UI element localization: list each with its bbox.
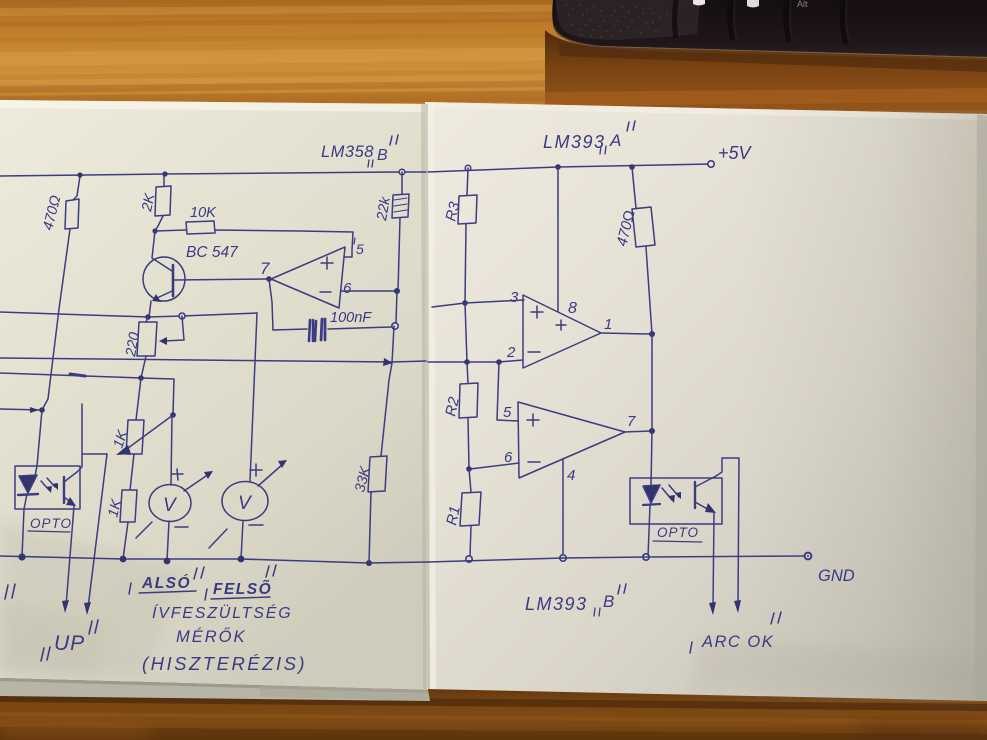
resistor 10K horizontal <box>155 230 186 231</box>
node pin6/22k <box>394 288 400 294</box>
potentiometer 1K wiper arrow <box>124 415 173 451</box>
wire output pin7 <box>625 431 650 432</box>
node bus/33k <box>366 560 372 566</box>
plus sign center <box>556 320 566 330</box>
node emitter/rail2 <box>145 314 151 320</box>
wire ground bus right page <box>428 556 806 562</box>
terminal +5V open circle <box>708 161 714 167</box>
svg-text:B: B <box>377 147 388 164</box>
svg-text:ARC OK: ARC OK <box>701 633 774 651</box>
node bus/1K <box>120 556 127 563</box>
wire 2K to collector node <box>155 216 163 231</box>
wire rail3 <box>0 358 426 362</box>
wire top supply rail left page <box>0 172 426 176</box>
wire R2 to pin6 node <box>468 418 469 469</box>
svg-text:100nF: 100nF <box>330 310 372 326</box>
node pin6 <box>466 466 472 472</box>
voltmeter V1 to bus <box>167 521 169 561</box>
opto LED wire to bus <box>22 494 27 557</box>
svg-text:1: 1 <box>604 316 612 333</box>
wire pin1 node to pin7 node <box>651 334 653 431</box>
transistor collector <box>152 231 172 271</box>
wire pin4 <box>562 459 564 556</box>
wire top supply rail right page <box>428 164 710 172</box>
wire pin3 node down to rail3 <box>465 303 467 362</box>
node rail/pin8 <box>555 164 561 170</box>
wire rail2 base bus <box>0 312 257 317</box>
opto2 phototransistor bar <box>694 482 696 508</box>
keyboard body <box>552 0 987 57</box>
node top rail / 22k <box>399 169 405 175</box>
svg-text:OPTO: OPTO <box>30 516 72 531</box>
right paper sheet <box>425 102 987 701</box>
bottom rim highlight <box>554 26 987 58</box>
node pin7/opto <box>649 428 655 434</box>
wire pin8 <box>557 167 559 311</box>
voltmeter V1 lead <box>171 415 172 485</box>
resistor 1K fixed <box>120 490 137 522</box>
voltmeter V2 to bus <box>241 521 243 559</box>
svg-text:3: 3 <box>510 289 519 306</box>
node bus/V1 <box>164 558 171 565</box>
svg-text:A: A <box>609 131 621 150</box>
svg-text:MÉRŐK: MÉRŐK <box>176 627 247 646</box>
svg-text:2: 2 <box>506 344 516 361</box>
node top rail / 470R <box>77 172 82 177</box>
opto phototransistor bar <box>63 477 65 503</box>
voltmeter V1 diagonal stroke <box>136 522 152 538</box>
voltmeter V1 plus <box>172 469 183 480</box>
transistor emitter with arrow <box>155 291 172 299</box>
node pin7 <box>266 276 272 282</box>
svg-text:Alt: Alt <box>797 0 808 9</box>
key separators <box>675 0 847 44</box>
opto2 emitter arrow <box>695 502 711 511</box>
svg-text:6: 6 <box>343 280 352 297</box>
opto LED triangle <box>19 475 37 493</box>
wire pin3 <box>432 300 524 307</box>
opto emitter arrow <box>64 497 73 504</box>
wire ground bus left page <box>0 556 428 563</box>
wire pin5 branch <box>497 362 518 421</box>
quote marks near UP <box>5 584 15 599</box>
opto2 LED triangle <box>643 485 660 503</box>
node top rail / 2K <box>162 171 167 176</box>
svg-text:OPTO: OPTO <box>657 525 699 540</box>
white key glyph (menu key) <box>693 0 705 6</box>
potentiometer 220 wiper arrow <box>163 316 184 341</box>
node pin3 <box>462 300 468 306</box>
terminal GND open circle <box>805 553 812 560</box>
wire 10K to op-amp +input pin5 <box>215 230 353 257</box>
wire emitter to ARC OK arrow <box>713 513 714 608</box>
bottom wood band <box>0 660 987 740</box>
svg-text:6: 6 <box>504 449 513 466</box>
wire 470R down to opto <box>37 229 70 466</box>
wire R3 to pin3 node <box>465 224 466 303</box>
node pin1/470 <box>649 331 655 337</box>
shadow of right sheet edge on left sheet <box>421 104 430 689</box>
svg-text:LM393: LM393 <box>543 132 606 152</box>
svg-text:(HISZTERÉZIS): (HISZTERÉZIS) <box>142 653 307 674</box>
voltmeter V2 diagonal stroke <box>209 529 227 548</box>
resistor 2K vertical <box>163 174 165 186</box>
wire output pin1 <box>601 333 650 334</box>
wire rail2 corner down to voltmeter2 <box>250 313 257 481</box>
opto2 light arrows <box>662 485 679 500</box>
svg-text:4: 4 <box>567 467 575 484</box>
voltmeter V1 adjust arrow <box>184 474 209 491</box>
node bus/opto <box>18 553 25 560</box>
voltmeter V2 plus <box>250 464 262 476</box>
opto LED cathode bar <box>18 494 38 495</box>
svg-text:10K: 10K <box>190 205 217 221</box>
op-amp U1 LM358B triangle <box>271 247 345 308</box>
wire pin6 node to cap node <box>396 291 397 323</box>
left paper subtle corner shading <box>0 520 190 678</box>
opto collector jog <box>82 453 107 455</box>
transistor Q1 BC547 circle <box>143 257 185 301</box>
svg-text:ÍVFESZÜLTSÉG: ÍVFESZÜLTSÉG <box>152 603 292 622</box>
opto2 collector wire <box>695 458 739 606</box>
svg-text:UP: UP <box>54 632 85 655</box>
svg-text:ALSÓ: ALSÓ <box>141 574 191 592</box>
node rail4/220 <box>138 375 144 381</box>
node rail3/R2 <box>464 359 470 365</box>
plus sign input pin5 <box>321 257 333 269</box>
node bus/V2 <box>238 556 245 563</box>
strip of shadowed paper below left sheet <box>0 678 430 701</box>
minus sign input pin6 <box>320 291 331 293</box>
minus sign pin6 <box>528 461 540 463</box>
potentiometer 1K body <box>136 378 141 420</box>
svg-text:FELSÕ: FELSÕ <box>213 580 272 598</box>
svg-text:GND: GND <box>818 567 855 585</box>
resistor R1 <box>469 469 471 492</box>
minus sign pin2 <box>528 351 540 353</box>
wire 220 bottom to rail4 <box>141 356 146 378</box>
optocoupler U5 box <box>630 478 722 524</box>
resistor 470ohm right <box>632 167 636 208</box>
svg-text:B: B <box>603 592 614 611</box>
op-amp U4 LM393B triangle <box>518 402 625 478</box>
opto light arrows <box>41 478 55 490</box>
wire to UP arrow 2 <box>88 454 107 608</box>
voltmeter V2 circle <box>222 482 268 521</box>
opto collector wire up <box>64 404 82 482</box>
wire base to op-amp pin7 <box>174 279 269 280</box>
svg-text:5: 5 <box>503 404 512 421</box>
node bus/pin4 open circle <box>560 555 566 561</box>
capacitor C1 100nF <box>273 329 307 330</box>
wire 22k to pin6 node <box>398 218 400 291</box>
node rail3/pin5 branch <box>496 359 502 365</box>
wire pin7 down to cap <box>269 279 273 330</box>
svg-text:8: 8 <box>568 300 577 317</box>
windows key glyph <box>747 0 759 8</box>
node rail/R3 <box>465 165 471 171</box>
resistor 33K vertical <box>381 326 394 456</box>
opto2 LED wire from pin7 <box>651 431 652 486</box>
opto2 LED wire to bus <box>648 505 650 557</box>
left paper sheet <box>0 100 428 690</box>
wire stub to 470 line <box>0 409 42 410</box>
opto2 LED cathode bar <box>643 504 660 505</box>
transistor base bar <box>172 265 175 296</box>
svg-text:+5V: +5V <box>718 143 753 163</box>
tick mark on rail4 <box>70 374 85 376</box>
svg-text:7: 7 <box>260 259 270 278</box>
node rail4/wiper <box>170 412 176 418</box>
voltmeter V2 adjust arrow <box>258 464 283 486</box>
voltmeter V1 minus <box>175 526 188 528</box>
node cap open circle <box>392 323 398 329</box>
wire pin6 <box>470 463 519 469</box>
voltmeter V1 circle <box>149 485 191 522</box>
wire 1K pot to 1K resistor <box>130 454 134 490</box>
op-amp U3 LM393A triangle <box>523 295 601 368</box>
node collector/10K junction <box>152 228 157 233</box>
wire R1 to bus <box>470 526 471 556</box>
wire 1K to ground bus <box>123 522 128 559</box>
dotted palm texture <box>565 4 668 38</box>
resistor R 470ohm vertical <box>73 176 80 200</box>
plus sign pin3 <box>531 306 543 318</box>
plus sign pin5 <box>527 414 539 426</box>
svg-text:LM393: LM393 <box>525 594 588 614</box>
svg-text:7: 7 <box>627 413 636 430</box>
node bus/LED <box>643 554 649 560</box>
resistor 22k vertical <box>401 172 403 194</box>
voltmeter V2 minus <box>249 524 263 526</box>
resistor R2 <box>467 362 468 383</box>
wire to UP arrow 1 <box>66 506 74 606</box>
svg-text:5: 5 <box>356 241 364 257</box>
node bus/R1 open circle <box>466 556 472 562</box>
svg-text:LM358: LM358 <box>321 143 374 161</box>
wood under/right of keyboard <box>545 30 987 118</box>
resistor R3 <box>467 168 468 195</box>
junction arrow mark rail3/33k <box>383 358 393 366</box>
potentiometer 220 body <box>146 317 148 322</box>
node wiper open circle <box>179 313 185 319</box>
wire pin6 to 22k node <box>341 290 396 292</box>
node stub/470 <box>39 407 45 413</box>
node rail/470R <box>629 164 635 170</box>
optocoupler U2 box <box>15 466 80 509</box>
opto LED anode wire <box>35 466 37 476</box>
svg-text:BC 547: BC 547 <box>186 244 239 261</box>
wire rail4 <box>0 373 174 415</box>
wire rail3 to pin2 <box>428 360 523 362</box>
